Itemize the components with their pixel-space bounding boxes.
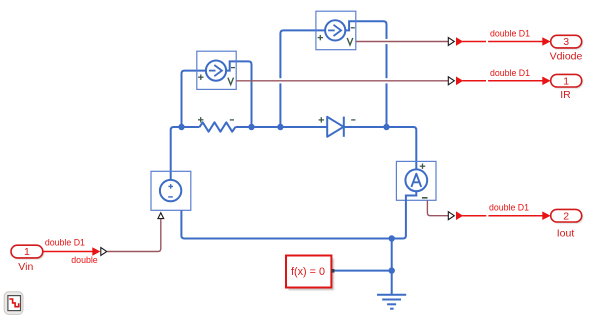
wire solver block to node D [334, 270, 392, 272]
svg-text:3: 3 [563, 36, 569, 48]
resistor R1 minus label [230, 119, 234, 121]
signal Iout arrowhead after conversion [456, 211, 463, 220]
junction node B1 [383, 124, 389, 130]
svg-text:Vin: Vin [18, 261, 33, 273]
resistor R1 [200, 122, 236, 131]
wire voltmeter V1 positive lead [182, 71, 206, 127]
svg-text:1: 1 [563, 75, 569, 87]
signal Iout conversion triangle [448, 212, 454, 220]
wire voltmeter V1 negative lead [226, 61, 251, 127]
junction node C [389, 235, 395, 241]
voltage source U1 control input port triangle [158, 213, 164, 219]
wire node A: voltage source top to resistor left [171, 127, 200, 180]
solver block f(x)=0 shadow [289, 258, 334, 290]
signal IR: sensor V1 output line [236, 80, 448, 82]
svg-text:2: 2 [563, 210, 569, 222]
resistor R1 plus label [198, 117, 203, 122]
signal IR conversion triangle [448, 77, 454, 85]
svg-text:Vdiode: Vdiode [550, 51, 583, 63]
signal Vdiode conversion triangle [448, 38, 454, 46]
signal Iout port arrowhead [542, 211, 550, 220]
signal IR arrowhead after conversion [456, 77, 463, 86]
diode D1 minus label [351, 119, 355, 121]
diode D1 plus label [319, 117, 324, 122]
label anchor gaps on signal lines [486, 39, 488, 217]
wire node C to ground [391, 239, 393, 295]
junction node A3 [277, 124, 283, 130]
solver block f(x)=0 [286, 256, 331, 288]
outport 2 Iout [551, 209, 582, 222]
svg-text:double D1: double D1 [489, 203, 529, 213]
voltmeter V2 V label [347, 38, 353, 45]
voltmeter V2 [316, 11, 356, 50]
signal Vin control line to voltage source [107, 219, 161, 252]
ammeter A1 plus label [420, 164, 425, 169]
signal Vdiode arrowhead after conversion [456, 37, 463, 46]
outport 3 Vdiode [551, 35, 582, 48]
diode D1 [327, 117, 344, 137]
outport 2 Iout shadow [552, 211, 583, 224]
voltmeter V2 minus label [351, 27, 355, 29]
inport 1 Vin [11, 245, 43, 258]
voltmeter V1 [197, 51, 236, 89]
wire node B: diode cathode to ammeter top [344, 127, 417, 170]
wire voltmeter V2 negative lead [346, 21, 387, 127]
inport 1 Vin shadow [12, 247, 44, 260]
svg-text:double D1: double D1 [490, 28, 530, 38]
voltmeter V1 V label [228, 78, 234, 85]
svg-text:double D1: double D1 [45, 238, 85, 248]
ammeter A1 minus label [422, 197, 428, 199]
ground [377, 295, 406, 309]
voltmeter V2 plus label [318, 35, 323, 40]
svg-text:f(x) = 0: f(x) = 0 [291, 266, 325, 278]
wire node A: resistor right to diode anode [235, 126, 327, 128]
signal Vin arrowhead [92, 247, 100, 256]
outport 1 IR shadow [552, 76, 583, 89]
wire voltmeter V2 positive lead [280, 30, 325, 127]
junction node D [389, 267, 395, 273]
signal Iout line to port [463, 215, 544, 217]
signal Vdiode: sensor V2 output line [356, 41, 448, 43]
ammeter A1 [396, 161, 436, 200]
wire crossing gaps [275, 42, 392, 81]
junction node A2 [248, 124, 254, 130]
voltmeter V1 minus label [231, 67, 235, 69]
wire bottom return: voltage source to node C [181, 210, 391, 238]
signal Vin line from port [43, 251, 93, 253]
svg-text:IR: IR [560, 89, 571, 101]
signal Vdiode port arrowhead [542, 37, 550, 46]
svg-text:double D1: double D1 [490, 68, 530, 78]
signal Vdiode line to port [463, 41, 544, 43]
junction node A1 [178, 124, 184, 130]
voltmeter V1 plus label [198, 75, 203, 80]
signal IR port arrowhead [542, 77, 550, 86]
signal IR line to port [463, 80, 544, 82]
signal Iout: ammeter output line [427, 200, 448, 215]
svg-text:Iout: Iout [557, 227, 575, 239]
svg-text:1: 1 [24, 246, 30, 258]
outport 3 Vdiode shadow [552, 37, 583, 50]
solver block output port nub [331, 269, 334, 273]
sample time legend button [4, 292, 23, 315]
outport 1 IR [551, 74, 582, 87]
wire ammeter bottom notch [392, 191, 417, 238]
svg-text:double: double [71, 255, 98, 265]
signal Vin conversion triangle [101, 248, 107, 256]
voltage source U1 [151, 171, 191, 210]
